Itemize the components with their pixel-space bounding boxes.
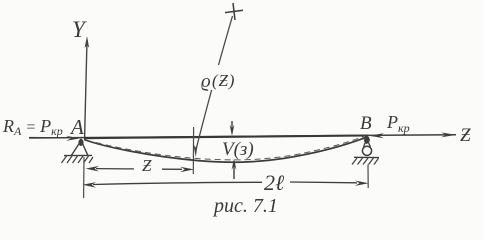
support B pin	[365, 136, 370, 143]
svg-text:Y: Y	[72, 17, 87, 42]
section line at z	[192, 127, 194, 174]
deflection curve (solid)	[84, 137, 368, 162]
svg-text:рис. 7.1: рис. 7.1	[212, 195, 278, 217]
deflection curve (dashed ghost)	[96, 136, 365, 160]
support A ground line	[64, 154, 92, 156]
arrowhead P at B (pointing left)	[369, 133, 384, 138]
underline under Pkp	[29, 137, 59, 139]
V(z) lower arrow (up to curve)	[233, 164, 235, 179]
arrowhead z axis	[441, 132, 456, 137]
svg-text:(Ƶ): (Ƶ)	[212, 71, 235, 90]
radius line rho(z)	[196, 16, 232, 148]
V(z) upper arrow (down to beam)	[231, 121, 233, 131]
white gap for rho label	[200, 65, 241, 90]
extension line at A	[83, 157, 85, 198]
dimension 2l: line segments	[93, 182, 357, 185]
dimension z: line segments	[96, 168, 182, 171]
svg-text:Ƶ: Ƶ	[142, 156, 152, 175]
svg-text:B: B	[360, 113, 372, 134]
support B roller circle	[362, 146, 371, 155]
Y axis arrowhead	[85, 36, 90, 48]
extension line at B	[367, 165, 369, 189]
wire: main horizontal line (RA force line + beam + z axis)	[29, 135, 456, 138]
dimension 2l: right arrow	[355, 181, 369, 186]
svg-text:2ℓ: 2ℓ	[264, 170, 285, 195]
arrowhead of rho line at curve	[193, 143, 198, 157]
svg-text:Ƶ: Ƶ	[460, 125, 471, 146]
support B ground line	[354, 156, 379, 158]
svg-text:A: A	[69, 115, 84, 139]
dimension z: right arrow	[180, 167, 194, 173]
svg-text:ϱ: ϱ	[201, 71, 211, 92]
support B hatching	[352, 158, 379, 165]
dimension 2l: left arrow	[83, 182, 97, 188]
Y axis	[85, 40, 87, 138]
support A hatching	[62, 156, 94, 163]
center of curvature cross	[225, 3, 243, 20]
svg-text:V(з): V(з)	[222, 139, 254, 160]
beam A-B (thicker pass)	[84, 136, 368, 139]
support A pin	[79, 139, 83, 146]
arrowhead RA at A	[66, 136, 80, 141]
dimension z: left arrow	[86, 166, 100, 172]
support A legs	[72, 143, 88, 155]
